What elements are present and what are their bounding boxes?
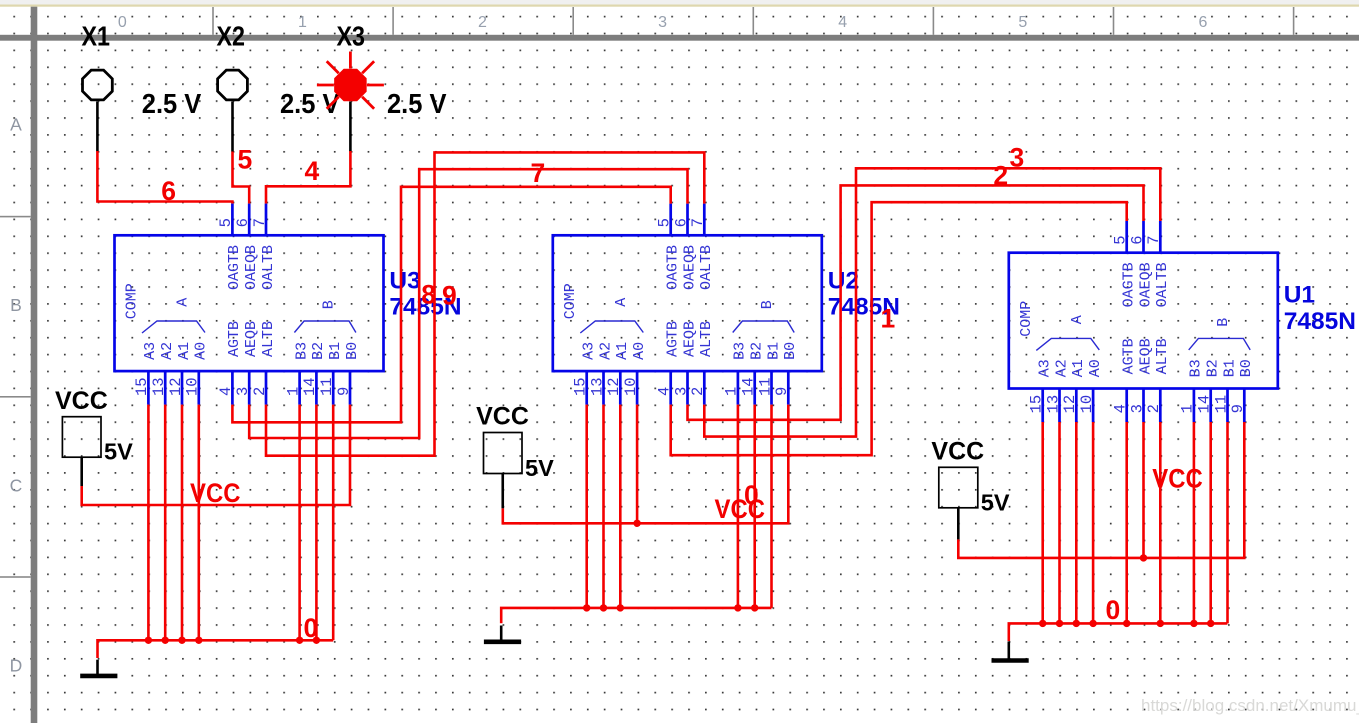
svg-text:5: 5	[1018, 14, 1027, 31]
svg-text:A0: A0	[631, 342, 648, 360]
svg-text:AGTB: AGTB	[665, 321, 682, 357]
U1 pin 2 (ALTB)	[1145, 338, 1171, 422]
U1 pin 5 (OAGTB)	[1112, 221, 1138, 307]
wire net 9: U3 pin 2 to U2 pin 7	[266, 152, 704, 455]
U3 pin 9 (B0)	[335, 342, 361, 405]
svg-text:4: 4	[1112, 404, 1130, 413]
svg-text:OALTB: OALTB	[698, 245, 715, 290]
svg-text:5V: 5V	[525, 455, 554, 481]
svg-text:0: 0	[744, 480, 759, 510]
wire net 0: U2 ground bus	[501, 405, 771, 624]
svg-text:4: 4	[217, 387, 235, 396]
svg-text:14: 14	[301, 377, 319, 396]
power source VCC V1 5V	[55, 387, 133, 465]
svg-text:B0: B0	[344, 342, 361, 360]
U1 pin 12 (A1)	[1061, 359, 1087, 422]
svg-text:U3: U3	[389, 268, 420, 295]
U3 pin 3 (AEQB)	[234, 321, 260, 405]
svg-text:10: 10	[622, 377, 640, 396]
svg-text:15: 15	[133, 377, 151, 396]
V3 stem	[957, 508, 960, 540]
IC U2 7485N body	[553, 235, 900, 371]
svg-text:10: 10	[184, 377, 202, 396]
svg-text:C: C	[10, 475, 23, 495]
U3 pin 2 (ALTB)	[251, 321, 277, 405]
svg-text:0: 0	[1106, 595, 1121, 625]
svg-text:B3: B3	[293, 342, 310, 360]
svg-text:AEQB: AEQB	[1137, 338, 1154, 374]
svg-text:9: 9	[442, 280, 457, 310]
svg-text:B1: B1	[765, 342, 782, 360]
V2 stem	[501, 474, 504, 509]
wire net 1: U2 pin 4 to U1 pin 5	[671, 202, 1127, 455]
svg-text:2: 2	[251, 387, 269, 396]
svg-text:2: 2	[478, 14, 487, 31]
U2 pin 1 (B3)	[723, 342, 749, 405]
svg-text:9: 9	[1229, 404, 1247, 413]
wire net 0: U1 ground bus	[1009, 422, 1228, 641]
svg-text:AGTB: AGTB	[1121, 338, 1138, 374]
wire net 0: U3 ground bus	[98, 405, 334, 658]
wire net 5: X2 to U3 pin 6	[233, 152, 250, 204]
svg-text:4: 4	[305, 156, 320, 186]
svg-text:B2: B2	[1205, 359, 1222, 377]
svg-text:OALTB: OALTB	[260, 245, 277, 290]
svg-text:A2: A2	[1053, 359, 1070, 377]
ground	[992, 642, 1029, 661]
svg-text:1: 1	[881, 304, 896, 334]
U2 pin 12 (A1)	[605, 342, 631, 405]
svg-text:5: 5	[1112, 235, 1130, 244]
svg-text:7: 7	[531, 158, 546, 188]
svg-text:12: 12	[1061, 395, 1079, 414]
U3 pin 7 (OALTB)	[251, 204, 277, 290]
svg-text:D: D	[10, 656, 23, 676]
svg-text:U2: U2	[828, 268, 859, 295]
svg-text:12: 12	[605, 377, 623, 396]
svg-text:OAEQB: OAEQB	[1137, 262, 1154, 307]
svg-text:2.5 V: 2.5 V	[387, 88, 447, 119]
U3 pin 5 (OAGTB)	[217, 204, 243, 290]
U2 pin 4 (AGTB)	[656, 321, 682, 405]
svg-text:A2: A2	[597, 342, 614, 360]
U2 pin 3 (AEQB)	[672, 321, 698, 405]
U2 pin 14 (B2)	[740, 342, 766, 405]
U3 pin 11 (B1)	[318, 342, 344, 405]
wire net VCC: V1 to U3 pin 9 (B0)	[82, 405, 350, 505]
svg-text:6: 6	[1198, 14, 1207, 31]
wire net 3: U2 pin 3 to U1 pin 6	[688, 185, 1144, 419]
svg-text:14: 14	[740, 377, 758, 396]
svg-text:U1: U1	[1284, 282, 1315, 309]
svg-text:A1: A1	[614, 342, 631, 360]
svg-text:A1: A1	[176, 342, 193, 360]
svg-text:11: 11	[756, 377, 774, 396]
svg-text:8: 8	[421, 279, 436, 309]
svg-text:2: 2	[1145, 404, 1163, 413]
U3 pin 14 (B2)	[301, 342, 327, 405]
IC U1 7485N body	[1009, 253, 1356, 389]
svg-text:15: 15	[572, 377, 590, 396]
svg-text:5: 5	[238, 145, 253, 175]
svg-text:OAGTB: OAGTB	[1121, 262, 1138, 307]
indicator probe X2 2.5V	[217, 21, 341, 152]
svg-text:A3: A3	[1037, 359, 1054, 377]
U2 pin 2 (ALTB)	[689, 321, 715, 405]
U1 pin 14 (B2)	[1196, 359, 1222, 422]
U2 pin 15 (A3)	[572, 342, 598, 405]
wire net 8: U3 pin 4 to U2 pin 5	[232, 187, 670, 422]
svg-text:1: 1	[723, 387, 741, 396]
U1 pin 3 (AEQB)	[1128, 338, 1154, 422]
svg-text:6: 6	[161, 176, 176, 206]
U1 AEQB to VCC wire	[1140, 422, 1147, 562]
svg-text:VCC: VCC	[476, 403, 529, 431]
svg-text:5V: 5V	[104, 439, 133, 465]
svg-text:B3: B3	[1188, 359, 1205, 377]
svg-text:X3: X3	[337, 21, 366, 52]
U2 pin 5 (OAGTB)	[656, 204, 682, 290]
svg-text:15: 15	[1028, 395, 1046, 414]
U2 pin 13 (A2)	[588, 342, 614, 405]
svg-text:B3: B3	[732, 342, 749, 360]
svg-text:7: 7	[251, 218, 269, 227]
IC U3 7485N body	[115, 235, 462, 371]
U1 pin 4 (AGTB)	[1112, 338, 1138, 422]
svg-text:B: B	[321, 300, 338, 309]
wire net 4: X3 to U3 pin 7	[266, 151, 350, 204]
svg-text:B2: B2	[310, 342, 327, 360]
svg-text:9: 9	[335, 387, 353, 396]
indicator probe X3 2.5V	[317, 21, 447, 152]
svg-text:0: 0	[118, 14, 127, 31]
svg-text:3: 3	[672, 387, 690, 396]
svg-text:A2: A2	[159, 342, 176, 360]
svg-text:A3: A3	[142, 342, 159, 360]
svg-text:https://blog.csdn.net/Xmumu_: https://blog.csdn.net/Xmumu_	[1141, 696, 1359, 715]
svg-text:3: 3	[1010, 142, 1025, 172]
indicator probe X1 2.5V	[82, 21, 202, 152]
U3 pin 15 (A3)	[133, 342, 159, 405]
ground	[484, 626, 521, 642]
wire net 7: U3 pin 3 to U2 pin 6	[249, 169, 687, 438]
U3 pin 13 (A2)	[150, 342, 176, 405]
U1 pin 13 (A2)	[1044, 359, 1070, 422]
svg-text:3: 3	[1128, 404, 1146, 413]
U2 pin 11 (B1)	[756, 342, 782, 405]
svg-text:14: 14	[1196, 395, 1214, 414]
svg-text:B0: B0	[1238, 359, 1255, 377]
svg-text:AGTB: AGTB	[226, 321, 243, 357]
svg-text:OAEQB: OAEQB	[681, 245, 698, 290]
svg-text:A1: A1	[1070, 359, 1087, 377]
svg-text:A: A	[175, 298, 192, 307]
wire net VCC: V3 to U1 pins 3,9	[958, 422, 1244, 558]
svg-text:0: 0	[304, 613, 319, 643]
svg-text:5: 5	[217, 218, 235, 227]
U2 A0 to VCC wire	[633, 405, 640, 527]
U3 pin 12 (A1)	[167, 342, 193, 405]
ground	[80, 660, 117, 676]
svg-text:4: 4	[656, 387, 674, 396]
U3 pin 1 (B3)	[284, 342, 310, 405]
svg-text:7: 7	[689, 218, 707, 227]
svg-text:B1: B1	[1221, 359, 1238, 377]
U1 pin 10 (A0)	[1078, 359, 1104, 422]
svg-text:13: 13	[150, 377, 168, 396]
U3 pin 6 (OAEQB)	[234, 204, 260, 290]
svg-text:1: 1	[298, 14, 307, 31]
U3 pin 10 (A0)	[184, 342, 210, 405]
svg-text:A3: A3	[581, 342, 598, 360]
power source VCC V3 5V	[931, 438, 1009, 516]
svg-text:A: A	[613, 298, 630, 307]
svg-text:B: B	[1215, 318, 1232, 327]
svg-text:OAGTB: OAGTB	[665, 245, 682, 290]
U1 pin 1 (B3)	[1179, 359, 1205, 422]
wire net VCC: V2 to U2 pins 10,9	[503, 405, 789, 524]
svg-text:ALTB: ALTB	[698, 321, 715, 357]
svg-text:9: 9	[773, 387, 791, 396]
svg-text:13: 13	[588, 377, 606, 396]
svg-text:B0: B0	[782, 342, 799, 360]
V1 stem	[80, 457, 83, 486]
svg-text:VCC: VCC	[931, 438, 984, 466]
svg-text:B1: B1	[327, 342, 344, 360]
wire net 6: X1 to U3 pin 5	[97, 151, 232, 204]
svg-text:A: A	[1069, 315, 1086, 324]
svg-text:COMP: COMP	[124, 283, 141, 319]
U2 pin 10 (A0)	[622, 342, 648, 405]
svg-text:3: 3	[234, 387, 252, 396]
U2 pin 7 (OALTB)	[689, 204, 715, 290]
svg-text:11: 11	[318, 377, 336, 396]
svg-text:A0: A0	[1087, 359, 1104, 377]
svg-text:2.5 V: 2.5 V	[142, 88, 202, 119]
svg-text:ALTB: ALTB	[1154, 338, 1171, 374]
U1 pin 15 (A3)	[1028, 359, 1054, 422]
svg-text:10: 10	[1078, 395, 1096, 414]
svg-text:6: 6	[1128, 235, 1146, 244]
svg-text:B: B	[759, 300, 776, 309]
svg-text:5V: 5V	[981, 489, 1010, 515]
power source VCC V2 5V	[476, 403, 554, 481]
svg-text:VCC: VCC	[55, 387, 108, 415]
svg-text:12: 12	[167, 377, 185, 396]
U1 pin 6 (OAEQB)	[1128, 221, 1154, 307]
svg-text:AEQB: AEQB	[243, 321, 260, 357]
svg-text:A0: A0	[193, 342, 210, 360]
svg-text:AEQB: AEQB	[681, 321, 698, 357]
svg-text:COMP: COMP	[562, 283, 579, 319]
svg-text:7: 7	[1145, 235, 1163, 244]
svg-text:ALTB: ALTB	[260, 321, 277, 357]
U1 pin 7 (OALTB)	[1145, 221, 1171, 307]
svg-text:B: B	[10, 295, 22, 315]
svg-text:2: 2	[689, 387, 707, 396]
svg-text:A: A	[10, 115, 22, 135]
svg-text:X2: X2	[217, 21, 246, 52]
svg-text:6: 6	[672, 218, 690, 227]
U2 pin 9 (B0)	[773, 342, 799, 405]
svg-text:1: 1	[284, 387, 302, 396]
svg-text:OALTB: OALTB	[1154, 262, 1171, 307]
svg-text:B2: B2	[749, 342, 766, 360]
U1 pin 9 (B0)	[1229, 359, 1255, 422]
U3 pin 4 (AGTB)	[217, 321, 243, 405]
svg-text:13: 13	[1044, 395, 1062, 414]
svg-text:2: 2	[993, 161, 1008, 191]
svg-text:X1: X1	[82, 21, 111, 52]
svg-text:11: 11	[1212, 395, 1230, 414]
svg-text:4: 4	[838, 14, 847, 31]
svg-text:5: 5	[656, 218, 674, 227]
svg-text:7485N: 7485N	[1284, 308, 1356, 335]
svg-text:1: 1	[1179, 404, 1197, 413]
U2 pin 6 (OAEQB)	[672, 204, 698, 290]
svg-text:3: 3	[658, 14, 667, 31]
svg-text:6: 6	[234, 218, 252, 227]
U1 pin 11 (B1)	[1212, 359, 1238, 422]
wire net 2: U2 pin 2 to U1 pin 7	[704, 168, 1160, 436]
svg-text:COMP: COMP	[1018, 301, 1035, 337]
svg-text:OAEQB: OAEQB	[243, 245, 260, 290]
svg-text:OAGTB: OAGTB	[226, 245, 243, 290]
